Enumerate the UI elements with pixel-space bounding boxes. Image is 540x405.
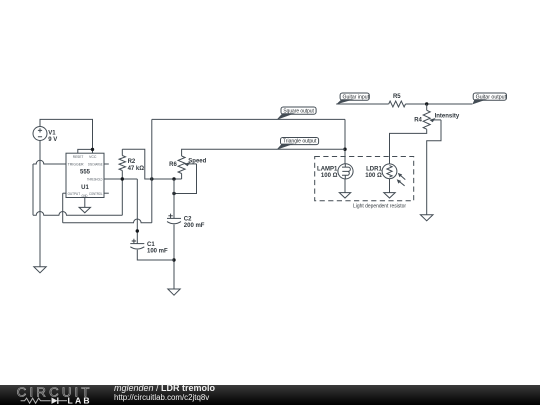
wire: guitar input to R5 bbox=[336, 103, 389, 105]
wire: OUTPUT to square output and LAMP1 bbox=[63, 192, 66, 194]
svg-text:GND: GND bbox=[82, 194, 89, 198]
node R2-threshold junction bbox=[121, 177, 124, 180]
photoresistor LDR1 bbox=[365, 164, 405, 186]
svg-text:100 Ω: 100 Ω bbox=[321, 173, 338, 179]
lamp LAMP1 bbox=[317, 164, 353, 179]
svg-text:47 kΩ: 47 kΩ bbox=[128, 166, 145, 172]
svg-text:U1: U1 bbox=[81, 185, 89, 191]
wire: V1 bottom to ground bbox=[39, 141, 41, 267]
pin stub GND of 555 bbox=[84, 198, 86, 208]
node R4 top junction bbox=[425, 102, 428, 105]
svg-text:V1: V1 bbox=[48, 130, 56, 136]
svg-text:Guitar input: Guitar input bbox=[343, 94, 370, 100]
voltage source V1 bbox=[33, 127, 57, 143]
svg-text:R6: R6 bbox=[169, 162, 177, 168]
svg-text:THRESHOLD: THRESHOLD bbox=[87, 178, 103, 182]
IC U1 555 timer bbox=[66, 153, 104, 198]
svg-text:Guitar output: Guitar output bbox=[476, 94, 507, 100]
wire: R6 top to triangle output wire bbox=[182, 149, 345, 156]
svg-text:Square output: Square output bbox=[283, 108, 314, 114]
flag Triangle output bbox=[277, 138, 319, 150]
svg-text:Intensity: Intensity bbox=[435, 114, 460, 120]
wire: LDR1 to ground bbox=[389, 179, 391, 193]
capacitor C1 100 mF bbox=[130, 239, 168, 255]
potentiometer R6 Speed bbox=[169, 156, 207, 174]
wire: TRIGGER to threshold net (left loop) bbox=[33, 160, 66, 164]
node VCC junction bbox=[91, 148, 94, 151]
wire: LAMP1 to ground bbox=[344, 179, 346, 193]
node C2 riser junction bbox=[172, 177, 175, 180]
svg-text:RESET: RESET bbox=[73, 155, 84, 159]
svg-text:100 Ω: 100 Ω bbox=[365, 173, 382, 179]
ground (LDR1) bbox=[384, 193, 395, 198]
wire: R6 bottom lead bbox=[181, 174, 183, 180]
wire: THRESHOLD to C1 bbox=[104, 178, 137, 180]
wire: R4 wiper to ground bbox=[427, 120, 441, 215]
svg-text:CONTROL: CONTROL bbox=[89, 192, 103, 196]
ground (R4 wiper) bbox=[420, 215, 433, 221]
wire: RESET-VCC bracket bbox=[78, 149, 93, 153]
svg-text:100 mF: 100 mF bbox=[147, 248, 168, 254]
wire: V1 top to 555 VCC bbox=[40, 119, 93, 149]
wire: R2 top over to R6 bottom bbox=[121, 149, 123, 155]
svg-text:OUTPUT: OUTPUT bbox=[68, 192, 81, 196]
svg-text:C1: C1 bbox=[147, 242, 155, 248]
ground (C1/C2) bbox=[168, 289, 180, 295]
resistor R2 47 kOhm bbox=[119, 156, 144, 172]
flag Guitar input bbox=[336, 93, 369, 104]
svg-text:LAMP1: LAMP1 bbox=[317, 166, 338, 172]
node on C1 riser bbox=[136, 229, 139, 232]
node wiper junction bbox=[172, 192, 175, 195]
CircuitLab logo bbox=[0, 385, 110, 405]
svg-text:R4: R4 bbox=[414, 118, 422, 124]
svg-text:Triangle output: Triangle output bbox=[283, 139, 317, 145]
ground (V1) bbox=[34, 267, 46, 273]
wire: C2 bottom to ground node bbox=[173, 225, 175, 290]
svg-text:R2: R2 bbox=[128, 159, 136, 165]
dashed enclosure Light dependent resistor bbox=[315, 157, 414, 210]
resistor R5 bbox=[389, 94, 406, 107]
node C1/C2 ground junction bbox=[172, 258, 175, 261]
svg-text:R5: R5 bbox=[393, 94, 401, 100]
capacitor C2 200 mF bbox=[167, 214, 205, 230]
svg-text:TRIGGER: TRIGGER bbox=[68, 163, 84, 167]
node output riser junction bbox=[150, 177, 153, 180]
wire: R2 bottom lead bbox=[121, 171, 123, 180]
ground (LAMP1) bbox=[339, 193, 350, 198]
flag Square output bbox=[277, 107, 317, 120]
pin stub CONTROL bbox=[104, 192, 109, 194]
svg-text:9 V: 9 V bbox=[48, 137, 57, 143]
svg-text:Light dependent resistor: Light dependent resistor bbox=[353, 203, 406, 209]
flag Guitar output bbox=[472, 93, 506, 104]
wire: R6 wiper to C2 riser bbox=[174, 164, 197, 194]
node square/triangle/LAMP junction bbox=[343, 148, 346, 151]
svg-text:VCC: VCC bbox=[89, 155, 97, 159]
ground (555) bbox=[79, 207, 90, 212]
svg-text:LAB: LAB bbox=[68, 395, 92, 405]
svg-text:Speed: Speed bbox=[188, 159, 206, 165]
svg-text:LDR1: LDR1 bbox=[366, 166, 382, 172]
pin stub DISCHARGE bbox=[104, 163, 109, 165]
potentiometer R4 Intensity bbox=[414, 104, 460, 129]
wire: R4 bottom to LDR1 bbox=[390, 129, 427, 164]
svg-text:555: 555 bbox=[80, 169, 91, 175]
wire: R5 to guitar output bbox=[406, 103, 473, 105]
svg-text:DISCHARGE: DISCHARGE bbox=[88, 163, 103, 167]
footer text bbox=[114, 385, 215, 401]
wire: C1 bottom to ground junction bbox=[137, 250, 174, 260]
svg-text:200 mF: 200 mF bbox=[184, 223, 205, 229]
wire: C2 riser bbox=[173, 179, 175, 218]
svg-text:C2: C2 bbox=[184, 217, 192, 223]
footer bar bbox=[0, 385, 540, 405]
